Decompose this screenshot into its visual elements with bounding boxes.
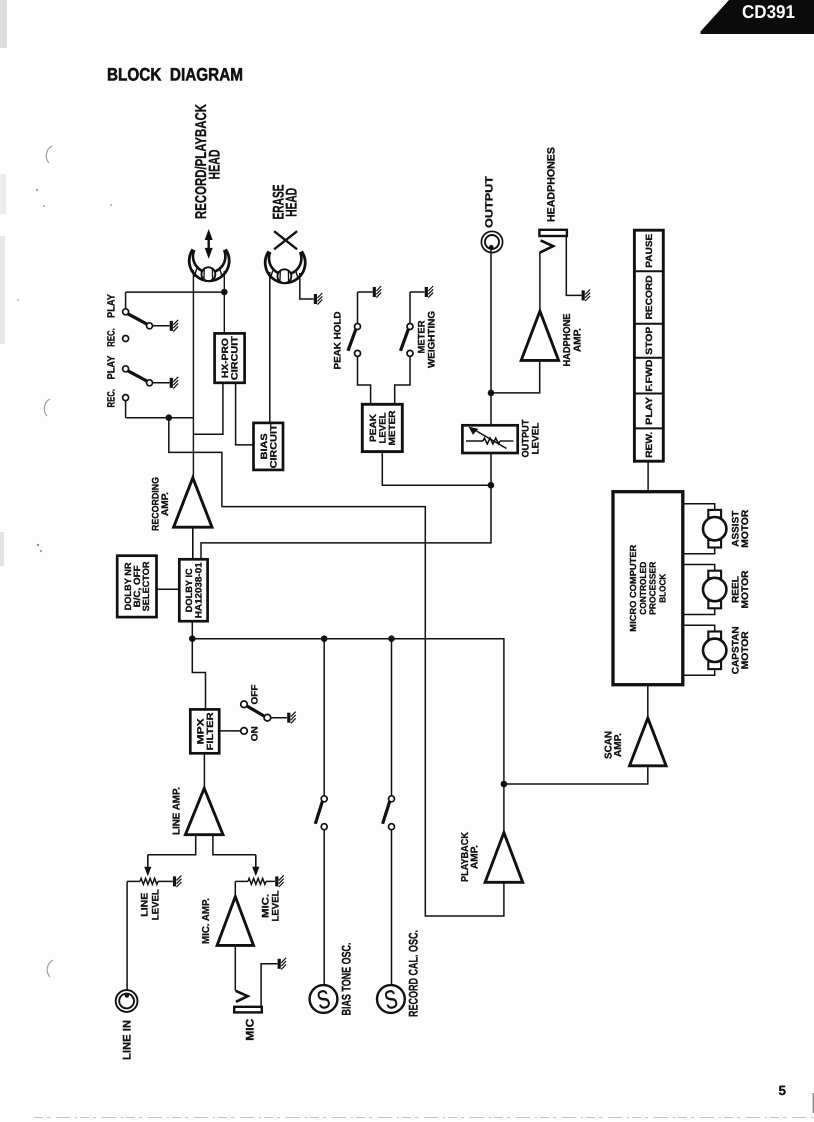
label MIC bbox=[245, 1019, 257, 1041]
mic jack tip bbox=[236, 991, 248, 1002]
label PLAYBACK AMP. bbox=[460, 831, 481, 882]
wire meter weighting ground bbox=[410, 292, 425, 324]
wire main bus bbox=[192, 639, 504, 784]
headphone jack sleeve bbox=[539, 230, 567, 236]
label RECORD/PLAYBACK HEAD bbox=[193, 103, 224, 219]
svg-text:HEADPHONES: HEADPHONES bbox=[546, 147, 558, 222]
label MIC. AMP. bbox=[201, 898, 212, 944]
headphone jack tip bbox=[540, 240, 553, 252]
svg-text:BLOCK: BLOCK bbox=[657, 573, 667, 603]
wire to headphone amp bbox=[491, 360, 540, 393]
label ERASE HEAD bbox=[271, 185, 301, 220]
contact S1 play bbox=[123, 336, 129, 342]
svg-text:PROCESSER: PROCESSER bbox=[648, 561, 658, 615]
scan edge smudges bbox=[0, 0, 112, 566]
label RECORDING AMP. bbox=[150, 477, 171, 531]
label S1 REC. bbox=[106, 328, 118, 347]
ground headphones bbox=[583, 289, 590, 301]
svg-text:HEAD: HEAD bbox=[206, 150, 223, 180]
svg-text:CIRCUIT: CIRCUIT bbox=[268, 424, 278, 468]
svg-text:SELECTOR: SELECTOR bbox=[141, 561, 151, 611]
wire HX-PRO out right bbox=[236, 383, 254, 445]
wire mpx to switch bbox=[219, 730, 240, 732]
ground mic jack bbox=[279, 958, 286, 970]
wire head to switch1 bbox=[126, 292, 225, 309]
wire mpx switch ground bbox=[271, 717, 287, 719]
potentiometer LINE LEVEL bbox=[127, 878, 173, 884]
box HX-PRO CIRCUIT bbox=[215, 333, 245, 382]
wire output vertical bbox=[490, 246, 492, 425]
svg-text:LINE: LINE bbox=[140, 893, 151, 917]
svg-text:DOLBY IC: DOLBY IC bbox=[184, 568, 194, 612]
switch bias tone osc bbox=[315, 796, 327, 830]
wire selector to dolby ic bbox=[157, 588, 180, 590]
node meter junction bbox=[488, 482, 495, 489]
record/playback head bbox=[189, 249, 229, 281]
svg-text:LEVEL: LEVEL bbox=[150, 889, 161, 920]
svg-text:PAUSE: PAUSE bbox=[644, 234, 654, 268]
op-amp scan bbox=[630, 718, 667, 766]
svg-text:MOTOR: MOTOR bbox=[740, 510, 751, 548]
svg-text:MPX: MPX bbox=[196, 717, 206, 744]
svg-text:HX-PRO: HX-PRO bbox=[220, 338, 230, 378]
label MIC. LEVEL bbox=[260, 890, 281, 921]
switch meter weighting bbox=[401, 324, 414, 357]
wire head left vertical bbox=[192, 270, 194, 478]
label OUTPUT bbox=[484, 175, 496, 228]
box DOLBY IC bbox=[179, 559, 207, 621]
connector LINE IN bbox=[116, 990, 138, 1012]
erase head bbox=[265, 251, 305, 283]
wire meter to output bus bbox=[382, 452, 491, 486]
svg-text:STOP: STOP bbox=[644, 327, 654, 355]
label OFF bbox=[250, 684, 260, 704]
svg-text:RECORD: RECORD bbox=[644, 275, 654, 319]
label S2 REC. bbox=[106, 389, 118, 408]
box DOLBY NR SELECTOR bbox=[117, 556, 156, 617]
node bus left bbox=[189, 635, 196, 642]
svg-text:AMP.: AMP. bbox=[160, 492, 171, 516]
svg-text:OUTPUT: OUTPUT bbox=[484, 175, 496, 228]
wire line amp to line pot bbox=[144, 835, 196, 877]
label BIAS TONE OSC. bbox=[340, 943, 354, 1016]
svg-text:HA12038-01: HA12038-01 bbox=[194, 562, 204, 618]
svg-text:AMP.: AMP. bbox=[572, 328, 583, 352]
wire mpx to line amp bbox=[203, 753, 205, 788]
scan mark arc 3 bbox=[47, 960, 53, 977]
wire dolby out bbox=[191, 621, 193, 639]
motor ASSIST bbox=[683, 504, 751, 554]
wire output to dolby bbox=[201, 453, 491, 559]
label S2 PLAY bbox=[106, 356, 118, 380]
svg-text:CD391: CD391 bbox=[742, 1, 795, 22]
label LINE IN bbox=[121, 1020, 133, 1060]
wire switch to bias osc bbox=[323, 830, 325, 986]
wire erase head to ground bbox=[300, 273, 314, 299]
wire bus to rec cal switch bbox=[391, 639, 393, 796]
scan mark arc 1 bbox=[46, 146, 52, 163]
wire dolby to mpx bbox=[192, 639, 205, 710]
svg-text:LINE IN: LINE IN bbox=[121, 1020, 133, 1060]
motor CAPSTAN bbox=[683, 625, 751, 675]
node bus rec cal osc bbox=[388, 635, 395, 642]
op-amp playback bbox=[485, 833, 523, 883]
svg-text:LEVEL: LEVEL bbox=[378, 412, 388, 443]
svg-text:MIC: MIC bbox=[245, 1019, 257, 1041]
box BIAS CIRCUIT bbox=[254, 423, 284, 470]
svg-text:AMP.: AMP. bbox=[613, 733, 624, 757]
wire to line in bbox=[126, 881, 128, 996]
label HADPHONE AMP. bbox=[562, 313, 583, 366]
svg-text:OFF: OFF bbox=[250, 684, 260, 704]
switch S1 rec/play bbox=[123, 309, 153, 329]
svg-text:BIAS: BIAS bbox=[259, 433, 269, 459]
svg-text:MICRO COMPUTER: MICRO COMPUTER bbox=[628, 544, 638, 632]
wire switch to rec cal osc bbox=[391, 830, 393, 986]
svg-text:PEAK HOLD: PEAK HOLD bbox=[333, 311, 344, 369]
wire S1 to ground bbox=[153, 325, 170, 327]
node rec bus junction bbox=[166, 414, 173, 421]
title BLOCK DIAGRAM bbox=[107, 65, 243, 85]
switch mpx on/off bbox=[241, 701, 271, 734]
wire erase head to bias bbox=[269, 272, 271, 423]
mic jack sleeve bbox=[234, 1007, 262, 1013]
wire mic jack ground bbox=[261, 964, 277, 1007]
ground meter weighting bbox=[426, 286, 433, 298]
label OUTPUT LEVEL bbox=[520, 419, 541, 457]
wire meter weighting to meter bbox=[395, 356, 410, 404]
label PEAK HOLD bbox=[333, 311, 344, 369]
wire junction to scan amp bbox=[504, 766, 648, 784]
label SCAN AMP. bbox=[604, 731, 625, 759]
scan mark arc 2 bbox=[44, 399, 50, 416]
contact S2 rec bbox=[123, 395, 129, 401]
svg-text:ON: ON bbox=[250, 726, 260, 741]
svg-text:MOTOR: MOTOR bbox=[740, 631, 751, 669]
svg-text:WEIGHTING: WEIGHTING bbox=[426, 311, 437, 368]
motor REEL bbox=[683, 565, 751, 615]
ground S1 bbox=[171, 320, 178, 332]
wire line amp to mic pot bbox=[213, 835, 260, 877]
svg-text:AMP.: AMP. bbox=[470, 845, 481, 869]
svg-text:PLAY: PLAY bbox=[644, 397, 654, 425]
erase X mark bbox=[274, 231, 297, 249]
operation buttons column bbox=[634, 230, 663, 461]
wire peak hold ground bbox=[358, 292, 373, 324]
svg-text:F.FWD: F.FWD bbox=[644, 359, 654, 391]
svg-text:REC.: REC. bbox=[106, 389, 118, 408]
node playback junction bbox=[501, 781, 508, 788]
svg-text:RECORD CAL. OSC.: RECORD CAL. OSC. bbox=[407, 930, 421, 1017]
label RECORD CAL. OSC. bbox=[407, 930, 421, 1017]
svg-text:CIRCUIT: CIRCUIT bbox=[230, 336, 240, 380]
wire scan amp to micro bbox=[647, 686, 649, 719]
svg-text:FILTER: FILTER bbox=[205, 712, 215, 750]
svg-text:MOTOR: MOTOR bbox=[740, 570, 751, 608]
box MPX FILTER bbox=[190, 709, 219, 753]
ground erase head bbox=[315, 293, 322, 305]
switch record cal osc bbox=[383, 796, 395, 830]
potentiometer MIC LEVEL bbox=[235, 878, 275, 884]
head motion double arrow bbox=[205, 229, 213, 259]
ground mic level bbox=[277, 875, 284, 887]
op-amp headphone bbox=[521, 311, 558, 360]
ground mpx switch bbox=[289, 712, 296, 724]
wire mic amp to jack bbox=[234, 945, 236, 990]
switch S2 rec/play bbox=[123, 366, 153, 386]
wire play path bbox=[169, 418, 504, 916]
label LINE AMP. bbox=[171, 787, 182, 835]
node head right junction bbox=[221, 289, 228, 296]
wire amp to jack bbox=[539, 252, 541, 311]
svg-text:LEVEL: LEVEL bbox=[530, 422, 541, 454]
switch peak hold bbox=[348, 324, 361, 357]
wire bus to bias osc switch bbox=[323, 639, 325, 796]
wire jack to ground bbox=[566, 237, 581, 296]
node headphone branch bbox=[488, 390, 495, 397]
svg-text:PEAK: PEAK bbox=[368, 414, 378, 442]
svg-text:MIC. AMP.: MIC. AMP. bbox=[201, 898, 212, 944]
label HEADPHONES bbox=[546, 147, 558, 222]
box MICRO COMPUTER bbox=[613, 492, 683, 685]
label S1 PLAY bbox=[106, 294, 118, 318]
svg-text:PLAY: PLAY bbox=[106, 294, 118, 318]
wire S2 to bus bbox=[126, 401, 194, 418]
ground peak hold bbox=[374, 286, 381, 298]
svg-text:METER: METER bbox=[387, 410, 397, 445]
CD391 banner bbox=[701, 0, 814, 34]
wire rec amp to dolby bbox=[192, 527, 194, 559]
svg-text:REC.: REC. bbox=[106, 328, 118, 347]
oscillator BIAS TONE OSC bbox=[310, 983, 338, 1015]
svg-text:REW.: REW. bbox=[644, 432, 654, 458]
label METER WEIGHTING bbox=[417, 311, 438, 368]
wire mic amp in bbox=[234, 881, 236, 896]
wire buttons to micro bbox=[647, 461, 649, 492]
output connector bbox=[481, 231, 502, 252]
svg-text:PLAY: PLAY bbox=[106, 356, 118, 380]
wire HX-PRO out left bbox=[193, 383, 223, 435]
svg-text:HEAD: HEAD bbox=[283, 188, 300, 217]
wire playback amp in bbox=[503, 784, 505, 833]
scan mark dots bbox=[37, 544, 42, 552]
wire head right to HX-PRO bbox=[223, 271, 225, 333]
op-amp recording bbox=[174, 478, 212, 527]
label ON bbox=[250, 726, 260, 741]
node bus bias osc bbox=[321, 635, 328, 642]
svg-text:LINE AMP.: LINE AMP. bbox=[171, 787, 182, 835]
svg-text:BLOCK DIAGRAM: BLOCK DIAGRAM bbox=[107, 65, 243, 85]
svg-text:BIAS TONE OSC.: BIAS TONE OSC. bbox=[340, 943, 354, 1016]
box PEAK LEVEL METER bbox=[362, 404, 402, 451]
ground S2 bbox=[171, 377, 178, 389]
wire S2 to ground bbox=[153, 382, 170, 384]
wire peak hold to meter bbox=[358, 356, 371, 404]
oscillator RECORD CAL OSC bbox=[377, 983, 405, 1015]
svg-text:5: 5 bbox=[779, 1083, 787, 1098]
label LINE LEVEL bbox=[140, 889, 162, 920]
op-amp mic bbox=[217, 897, 253, 946]
op-amp line bbox=[185, 788, 223, 834]
svg-text:CONTROLED: CONTROLED bbox=[638, 562, 648, 615]
box OUTPUT LEVEL pot bbox=[462, 425, 517, 453]
ground line level bbox=[175, 875, 182, 887]
page number 5 bbox=[779, 1083, 814, 1113]
svg-text:LEVEL: LEVEL bbox=[270, 890, 281, 921]
bottom scan edge bbox=[34, 1117, 814, 1119]
